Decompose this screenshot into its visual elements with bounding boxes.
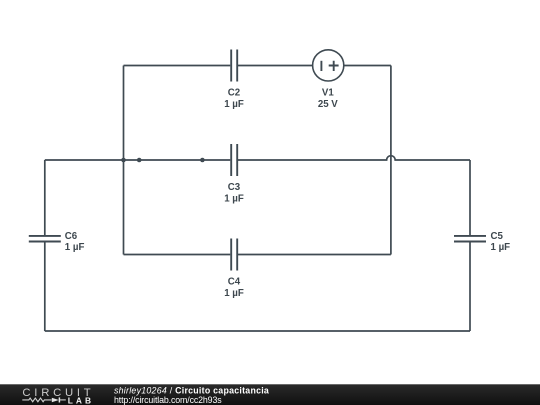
wire top rail right segment (C2 right plate to V1) xyxy=(238,65,313,67)
voltage source V1 xyxy=(313,50,344,81)
capacitor C5 xyxy=(454,236,486,242)
wire V1 right to top-right corner xyxy=(344,65,391,67)
junction dot node A (left inner vertical x middle rail) xyxy=(121,158,126,163)
wire left outer vertical lower segment xyxy=(44,242,46,331)
junction dot node B xyxy=(137,158,142,163)
wire bottom inner rail right segment xyxy=(238,254,391,256)
wire top rail left segment (node to C2 left plate) xyxy=(124,65,231,67)
wire middle rail right segment with hop over vertical wire xyxy=(238,156,470,160)
junction dot node C xyxy=(200,158,205,163)
svg-text:C6: C6 xyxy=(65,231,78,242)
svg-text:C5: C5 xyxy=(491,231,504,242)
svg-text:http://circuitlab.com/cc2h93s: http://circuitlab.com/cc2h93s xyxy=(114,395,222,405)
wire right outer vertical lower segment xyxy=(469,242,471,331)
capacitor C2 xyxy=(231,50,237,82)
svg-text:C2: C2 xyxy=(228,88,240,99)
svg-text:1 µF: 1 µF xyxy=(224,194,244,205)
wire left outer vertical upper segment xyxy=(44,160,46,235)
svg-text:C4: C4 xyxy=(228,277,241,288)
svg-text:C3: C3 xyxy=(228,182,241,193)
wire right outer vertical upper segment xyxy=(469,160,471,235)
svg-text:1 µF: 1 µF xyxy=(491,242,511,253)
logo resistor-diode squiggle xyxy=(22,397,66,402)
wire left inner vertical xyxy=(123,66,125,255)
wire middle rail left segment xyxy=(45,159,231,161)
wire bottom inner rail left segment xyxy=(124,254,231,256)
svg-text:V1: V1 xyxy=(322,88,334,99)
capacitor C4 xyxy=(231,239,237,271)
svg-text:1 µF: 1 µF xyxy=(224,288,244,299)
svg-text:1 µF: 1 µF xyxy=(224,99,244,110)
svg-text:1 µF: 1 µF xyxy=(65,242,85,253)
wire right inner vertical (V1 branch down to bottom inner rail) xyxy=(390,66,392,255)
svg-text:LAB: LAB xyxy=(68,396,95,405)
capacitor C6 xyxy=(29,236,61,242)
capacitor C3 xyxy=(231,144,237,176)
wire bottom outer rail xyxy=(45,330,470,332)
svg-text:25 V: 25 V xyxy=(318,99,338,110)
